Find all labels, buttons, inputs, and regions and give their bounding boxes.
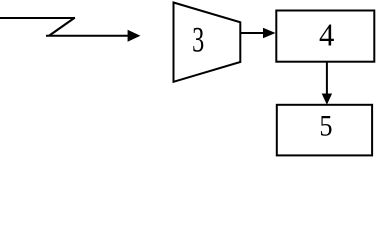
label 5	[319, 110, 332, 143]
svg-text:3: 3	[192, 20, 204, 60]
wire: lower horizontal segment with arrowhead (input to element 3)	[46, 30, 140, 42]
svg-text:5: 5	[319, 110, 332, 143]
wire: zigzag diagonal segment	[49, 18, 75, 36]
block 4: rectangle	[276, 11, 374, 62]
wire: arrow from block 4 down to block 5	[322, 62, 332, 105]
element 3: trapezoid block	[174, 3, 241, 82]
wire: incoming signal upper horizontal segment	[0, 17, 75, 19]
svg-text:4: 4	[319, 17, 335, 53]
wire: arrow from element 3 to block 4	[241, 28, 276, 38]
label 4	[319, 17, 335, 53]
label 3	[192, 20, 204, 60]
block 5: rectangle	[277, 105, 372, 156]
